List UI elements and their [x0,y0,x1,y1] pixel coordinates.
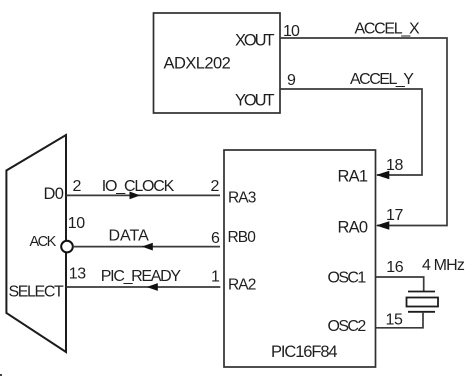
svg-text:18: 18 [386,157,403,174]
wire OSC1 to crystal [376,277,424,292]
svg-text:ADXL202: ADXL202 [164,55,231,73]
wire crystal to OSC2 [376,312,424,328]
svg-text:RB0: RB0 [228,229,257,246]
svg-text:RA1: RA1 [338,168,368,186]
wire IO_CLOCK from D0 to RA3 [66,194,220,196]
IC U1 ADXL202 accelerometer box [154,13,281,113]
svg-text:RA0: RA0 [338,219,368,237]
wire DATA from RB0 to ACK [73,246,220,248]
crystal X1 body [407,298,439,307]
svg-text:RA2: RA2 [228,277,256,294]
arrowhead on PIC_READY pointing left [147,283,158,291]
svg-text:OSC1: OSC1 [328,270,367,287]
crystal X1 top plate [408,291,435,293]
svg-text:10: 10 [68,215,85,232]
corner artifact mark [0,374,2,376]
svg-text:D0: D0 [44,185,64,203]
svg-text:ACK: ACK [30,234,57,250]
svg-text:DATA: DATA [109,227,150,244]
svg-text:YOUT: YOUT [235,92,274,110]
svg-text:15: 15 [386,311,403,328]
arrowhead on IO_CLOCK pointing right [130,192,141,200]
wire ACCEL_Y from YOUT pin9 to RA1 pin18 [280,89,422,175]
svg-text:16: 16 [386,259,403,276]
svg-text:SELECT: SELECT [9,284,64,301]
wire ACCEL_X from XOUT pin10 to RA0 pin17 [280,38,447,226]
IC U2 PIC16F84 microcontroller box [224,150,376,367]
svg-text:2: 2 [211,178,220,195]
svg-text:6: 6 [211,230,220,247]
svg-text:1: 1 [211,269,220,286]
arrowhead on DATA pointing left [142,243,153,251]
svg-text:ACCEL_X: ACCEL_X [355,21,420,38]
arrowhead into RA1 [376,171,389,179]
svg-text:ACCEL_Y: ACCEL_Y [350,71,414,88]
wire PIC_READY from RA2 to SELECT [66,286,220,288]
svg-text:OSC2: OSC2 [328,318,367,335]
arrowhead into RA0 [376,221,389,229]
svg-text:13: 13 [69,266,86,283]
inverter bubble on ACK pin [61,241,73,253]
svg-text:PIC16F84: PIC16F84 [271,343,337,361]
connector J1 parallel port (trapezoid) [6,135,66,352]
svg-text:2: 2 [73,178,82,195]
svg-text:RA3: RA3 [228,190,256,207]
svg-text:9: 9 [287,72,296,89]
svg-text:PIC_READY: PIC_READY [101,268,182,285]
svg-text:4 MHz: 4 MHz [422,257,465,274]
svg-text:IO_CLOCK: IO_CLOCK [102,178,175,195]
svg-text:XOUT: XOUT [235,32,274,50]
crystal X1 bottom plate [408,311,435,313]
svg-text:17: 17 [386,207,403,224]
